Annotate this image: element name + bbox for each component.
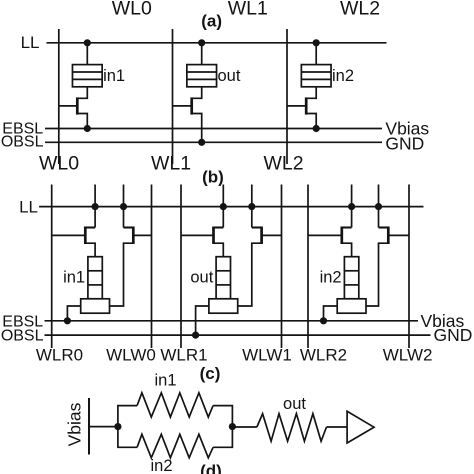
svg-text:(c): (c)	[200, 364, 221, 383]
word line WL2 vertical wire (a)	[286, 29, 288, 164]
memristor in2 (a)	[301, 65, 331, 87]
transistor channel bar (in2 cell a)	[305, 97, 308, 114]
wire LL to memristor in2 (a)	[315, 43, 317, 65]
svg-text:out: out	[218, 67, 241, 85]
svg-text:(a): (a)	[201, 12, 222, 31]
wire transistor source to bit line (in2 cell a)	[306, 114, 316, 129]
junction dot on bit line (in2 cell a)	[313, 125, 320, 132]
transistor channel bar (out cell a)	[190, 97, 193, 114]
wire node to resistor in1 (d)	[118, 406, 137, 427]
svg-text:OBSL: OBSL	[1, 134, 44, 151]
read transistor drain wire (out cell b)	[214, 226, 224, 228]
read transistor channel bar (out cell b)	[212, 227, 215, 245]
svg-text:WLW2: WLW2	[383, 346, 433, 365]
wire memristor out to transistor drain (a)	[192, 87, 202, 99]
svg-text:out: out	[190, 269, 213, 287]
write transistor channel bar (out cell b)	[260, 227, 263, 245]
write transistor source wire to electrode (in2 cell b)	[366, 243, 388, 306]
junction dot on bit line (out cell a)	[198, 139, 205, 146]
svg-text:(d): (d)	[200, 462, 222, 474]
svg-text:in1: in1	[154, 372, 176, 390]
word line WL0 vertical wire (a)	[58, 29, 60, 164]
bit line OBSL horizontal (b)	[45, 334, 431, 336]
write transistor source wire to electrode (in1 cell b)	[110, 243, 134, 306]
svg-text:LL: LL	[19, 197, 38, 216]
node dot on LL right (out cell b)	[248, 203, 255, 210]
svg-text:WL0: WL0	[39, 153, 79, 175]
word line WL1 vertical wire (a)	[172, 29, 174, 164]
word line WLW1 vertical wire (b)	[281, 185, 283, 349]
svg-text:Vbias: Vbias	[65, 402, 85, 446]
write transistor gate wire from WLW (out cell b)	[262, 234, 282, 236]
bit line OBSL horizontal (a)	[45, 141, 382, 143]
read transistor channel bar (in2 cell b)	[340, 227, 343, 245]
junction dot on bit line (in1 cell b)	[64, 317, 71, 324]
svg-text:WLR0: WLR0	[36, 346, 83, 365]
write transistor drain wire (in1 cell b)	[124, 226, 134, 228]
svg-text:out: out	[283, 395, 306, 413]
wire electrode to bit line (in2 cell b)	[324, 306, 338, 321]
write transistor drain wire (out cell b)	[252, 226, 262, 228]
svg-text:in2: in2	[150, 457, 172, 474]
svg-text:in2: in2	[332, 67, 354, 85]
write transistor channel bar (in1 cell b)	[132, 227, 135, 245]
write transistor gate wire from WLW (in1 cell b)	[133, 234, 151, 236]
read transistor drain wire (in1 cell b)	[85, 226, 95, 228]
wire LL drop to write transistor drain (out cell b)	[251, 185, 253, 228]
read transistor source wire to memristor (in1 cell b)	[85, 243, 95, 257]
wire LL to memristor in1 (a)	[86, 43, 88, 65]
memristor in2 bottom electrode plate (b)	[337, 299, 366, 313]
svg-text:in2: in2	[320, 269, 342, 287]
word line WLR1 vertical wire (b)	[180, 185, 182, 349]
memristor in1 bottom electrode plate (b)	[81, 299, 110, 313]
wire LL drop to write transistor drain (in1 cell b)	[123, 185, 125, 228]
read transistor source wire to memristor (out cell b)	[214, 243, 224, 257]
wire transistor source to bit line (out cell a)	[192, 114, 202, 143]
wire LL to memristor out (a)	[201, 43, 203, 65]
word line WLW2 vertical wire (b)	[408, 185, 410, 349]
svg-text:LL: LL	[21, 33, 40, 52]
wire electrode to bit line (in1 cell b)	[67, 306, 80, 321]
wire Vbias terminal to node (d)	[89, 426, 118, 428]
read transistor gate wire from WLR (in2 cell b)	[308, 234, 342, 236]
wire resistor out to buffer (d)	[327, 426, 348, 428]
svg-text:OBSL: OBSL	[1, 328, 44, 345]
resistor in2 zigzag (d)	[137, 434, 213, 458]
transistor gate wire (in2 cell a)	[287, 105, 306, 107]
wire LL drop to write transistor drain (in2 cell b)	[378, 185, 380, 228]
memristor out bottom electrode plate (b)	[209, 299, 238, 313]
transistor gate wire (in1 cell a)	[59, 105, 78, 107]
wire LL horizontal (b)	[39, 206, 423, 208]
memristor in1 vertical stack (b)	[88, 257, 102, 299]
transistor channel bar (in1 cell a)	[76, 97, 79, 114]
wire memristor in2 to transistor drain (a)	[306, 87, 316, 99]
read transistor gate wire from WLR (in1 cell b)	[52, 234, 86, 236]
node dot right (d)	[229, 423, 236, 430]
resistor in1 zigzag (d)	[137, 393, 213, 417]
svg-text:in1: in1	[103, 67, 125, 85]
svg-text:GND: GND	[434, 325, 473, 345]
junction dot on bit line (in2 cell b)	[320, 317, 327, 324]
svg-text:GND: GND	[385, 133, 424, 153]
node dot left (d)	[114, 423, 121, 430]
junction dot on bit line (in1 cell a)	[84, 125, 91, 132]
word line WLR2 vertical wire (b)	[307, 185, 309, 349]
write transistor channel bar (in2 cell b)	[387, 227, 390, 245]
wire LL drop to read transistor drain (in1 cell b)	[94, 185, 96, 228]
memristor out (a)	[187, 65, 217, 87]
wire LL drop to read transistor drain (in2 cell b)	[351, 185, 353, 228]
read transistor channel bar (in1 cell b)	[84, 227, 87, 245]
word line WLW0 vertical wire (b)	[151, 185, 153, 349]
memristor out vertical stack (b)	[216, 257, 230, 299]
transistor gate wire (out cell a)	[173, 105, 192, 107]
buffer amplifier triangle (d)	[347, 411, 374, 443]
node dot on LL left (out cell b)	[220, 203, 227, 210]
svg-text:WLW1: WLW1	[242, 346, 292, 365]
svg-text:in1: in1	[63, 269, 85, 287]
svg-text:WL2: WL2	[263, 153, 303, 175]
wire node to resistor in2 (d)	[118, 427, 137, 448]
wire transistor source to bit line (in1 cell a)	[77, 114, 87, 129]
node dot on LL right (in1 cell b)	[120, 203, 127, 210]
write transistor gate wire from WLW (in2 cell b)	[388, 234, 409, 236]
node dot on LL left (in2 cell b)	[348, 203, 355, 210]
resistor out zigzag (d)	[257, 414, 327, 442]
svg-text:WL1: WL1	[228, 0, 268, 20]
node dot on LL (out cell a)	[198, 39, 205, 46]
read transistor source wire to memristor (in2 cell b)	[342, 243, 352, 257]
write transistor drain wire (in2 cell b)	[379, 226, 389, 228]
wire resistor in1 to right node (d)	[213, 406, 232, 427]
bit line EBSL horizontal (a)	[45, 128, 382, 130]
write transistor source wire to electrode (out cell b)	[238, 243, 262, 306]
node dot on LL (in1 cell a)	[84, 39, 91, 46]
word line WLR0 vertical wire (b)	[51, 185, 53, 349]
bit line EBSL horizontal (b)	[45, 320, 419, 322]
wire right node to resistor out (d)	[232, 426, 257, 428]
wire electrode to bit line (out cell b)	[196, 306, 209, 335]
node dot on LL (in2 cell a)	[313, 39, 320, 46]
svg-text:WL0: WL0	[112, 0, 152, 20]
input terminal bar (d)	[88, 398, 90, 455]
svg-text:WL2: WL2	[340, 0, 380, 20]
node dot on LL left (in1 cell b)	[92, 203, 99, 210]
svg-text:WL1: WL1	[151, 153, 191, 175]
node dot on LL right (in2 cell b)	[375, 203, 382, 210]
svg-text:(b): (b)	[202, 168, 224, 187]
memristor in1 (a)	[72, 65, 102, 87]
wire LL horizontal (a)	[47, 42, 387, 44]
memristor in2 vertical stack (b)	[344, 257, 358, 299]
svg-text:WLW0: WLW0	[106, 346, 156, 365]
svg-text:WLR2: WLR2	[300, 346, 347, 365]
svg-text:WLR1: WLR1	[160, 346, 207, 365]
read transistor drain wire (in2 cell b)	[342, 226, 352, 228]
read transistor gate wire from WLR (out cell b)	[181, 234, 214, 236]
wire LL drop to read transistor drain (out cell b)	[222, 185, 224, 228]
wire memristor in1 to transistor drain (a)	[77, 87, 87, 99]
wire resistor in2 to right node (d)	[213, 427, 232, 448]
junction dot on bit line (out cell b)	[192, 332, 199, 339]
